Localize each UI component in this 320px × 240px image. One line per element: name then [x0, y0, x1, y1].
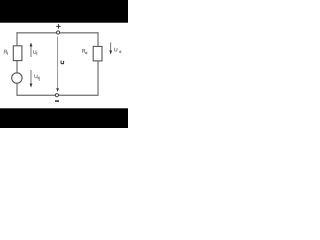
wire bottom-right vertical	[97, 61, 99, 96]
voltage arrow u_i (pointing up)	[30, 42, 33, 57]
resistor R1 (internal resistance Ri)	[13, 46, 22, 61]
voltage arrow u_a (pointing down)	[109, 42, 112, 54]
top letterbox band	[0, 0, 128, 23]
voltage arrow u_q (pointing down)	[30, 70, 33, 88]
plus polarity mark	[56, 24, 61, 29]
background	[0, 0, 128, 128]
minus polarity mark	[55, 100, 59, 102]
label u_a	[115, 48, 121, 53]
wire bottom horizontal	[16, 94, 98, 96]
wire top horizontal	[16, 32, 98, 34]
resistor R2 (load Ra)	[93, 46, 102, 61]
bottom letterbox band	[0, 108, 128, 128]
wire below source	[16, 83, 18, 95]
label u_i	[33, 50, 37, 54]
node B (bottom terminal)	[55, 94, 58, 97]
label u	[61, 61, 64, 64]
label Ri	[4, 50, 7, 55]
label u_q	[35, 75, 40, 81]
wire top-left vertical	[16, 32, 18, 46]
wire between resistor Ri and source	[16, 61, 18, 73]
voltage arrow u (middle, pointing down)	[56, 36, 59, 92]
voltage source V1 (circle)	[12, 73, 22, 83]
node A (top terminal)	[57, 31, 60, 34]
label Ra	[82, 49, 87, 54]
wire top-right vertical	[97, 32, 99, 46]
